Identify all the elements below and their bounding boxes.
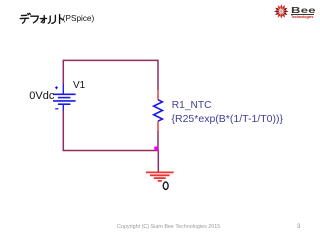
wire right vertical upper (top corner to R1 pin) [157,60,159,90]
label R1_NTC [172,100,212,111]
wire left vertical upper (top corner to V1 + pin) [62,60,64,84]
logo text Bee [291,5,316,15]
wire top horizontal (V1+ to R1 top) [63,59,158,61]
logo text Technologies [291,15,313,19]
wire bottom horizontal [63,150,159,152]
V1 plus marker [55,86,58,89]
label R1 value {R25*exp(B*(1/T-1/T0))} [172,113,283,125]
voltage source V1 battery plates [53,94,76,104]
title text (PSpice) [63,14,94,23]
V1 + pin stub [62,84,64,94]
junction node dot [154,147,158,151]
footer copyright [117,224,220,230]
label 0Vdc [29,90,54,102]
title デフォルト (katakana strokes) [20,13,63,23]
footer page number 3 [297,224,300,230]
ground symbol 0 [146,172,174,181]
logo starburst icon [274,4,288,18]
wire left vertical lower (V1 - to bottom corner) [62,111,64,151]
V1 - pin stub [62,104,64,111]
logo rule under Bee [291,13,314,16]
V1 minus marker [55,108,58,110]
wire right vertical lower (R1 to junction) [157,131,159,151]
wire junction to ground [157,151,159,173]
R1 top pin stub [157,90,159,100]
resistor R1_NTC zigzag [154,100,163,122]
R1 bottom pin stub [157,121,159,131]
label ground 0 [163,182,168,189]
label V1 [73,80,85,91]
